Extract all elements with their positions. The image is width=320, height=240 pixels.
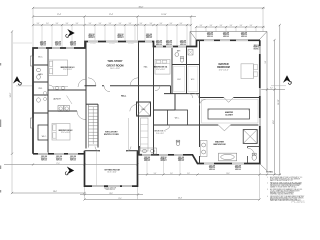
svg-text:TWO-STORY: TWO-STORY bbox=[105, 131, 118, 133]
svg-text:17'-0" x 21'-4": 17'-0" x 21'-4" bbox=[219, 70, 229, 72]
svg-text:BEDROOM #2: BEDROOM #2 bbox=[59, 130, 74, 132]
svg-text:BEDROOM: BEDROOM bbox=[217, 66, 229, 69]
svg-text:HALL: HALL bbox=[121, 95, 127, 98]
svg-text:HDR 8-0: HDR 8-0 bbox=[241, 36, 247, 38]
svg-text:BATHROOM: BATHROOM bbox=[213, 143, 225, 146]
svg-text:GREAT ROOM: GREAT ROOM bbox=[106, 64, 123, 67]
svg-text:LAUNDRY: LAUNDRY bbox=[53, 98, 62, 101]
svg-text:HDR 8-0: HDR 8-0 bbox=[178, 160, 184, 162]
svg-text:56'-10": 56'-10" bbox=[278, 99, 280, 105]
svg-text:BEDROOM #3: BEDROOM #3 bbox=[61, 67, 76, 69]
svg-text:TEMP HDR 8-0: TEMP HDR 8-0 bbox=[105, 189, 115, 191]
svg-text:11'-0" x 12'-0": 11'-0" x 12'-0" bbox=[156, 133, 164, 135]
svg-text:HDR 8-0: HDR 8-0 bbox=[235, 169, 241, 171]
svg-text:20'-0" x 19'-8": 20'-0" x 19'-8" bbox=[110, 68, 120, 70]
svg-text:HDR 8-0: HDR 8-0 bbox=[254, 48, 260, 50]
svg-text:BEDROOM #4: BEDROOM #4 bbox=[154, 66, 168, 69]
svg-text:HDR 8-0: HDR 8-0 bbox=[209, 169, 215, 171]
svg-text:54'-4": 54'-4" bbox=[178, 198, 182, 200]
svg-text:HDR 8-0: HDR 8-0 bbox=[166, 44, 172, 46]
svg-text:W.I.C.: W.I.C. bbox=[177, 79, 181, 81]
svg-text:W.I.C.: W.I.C. bbox=[38, 57, 43, 59]
svg-text:PDR.: PDR. bbox=[39, 88, 43, 90]
svg-text:HDR 8-0: HDR 8-0 bbox=[40, 45, 46, 47]
svg-text:TWO-STORY: TWO-STORY bbox=[107, 60, 122, 63]
svg-text:ENTRY FOYER: ENTRY FOYER bbox=[104, 134, 119, 136]
svg-text:W.I.C.: W.I.C. bbox=[42, 136, 47, 138]
svg-text:HDR 8-0: HDR 8-0 bbox=[146, 37, 152, 39]
svg-text:12'-0" x 13'-0": 12'-0" x 13'-0" bbox=[156, 69, 166, 71]
svg-text:HDR 8-0: HDR 8-0 bbox=[55, 45, 61, 47]
svg-text:16'-0" x 10'-0": 16'-0" x 10'-0" bbox=[107, 172, 117, 174]
svg-text:17-0 CLG: 17-0 CLG bbox=[90, 43, 95, 45]
svg-text:17'-0": 17'-0" bbox=[56, 163, 60, 165]
svg-text:SITTING ROOM: SITTING ROOM bbox=[104, 169, 120, 171]
svg-text:28'-0": 28'-0" bbox=[53, 191, 57, 193]
svg-text:HDR 8-0: HDR 8-0 bbox=[70, 159, 76, 161]
svg-text:HDR 8-0: HDR 8-0 bbox=[56, 159, 62, 161]
svg-text:HDR 8-0: HDR 8-0 bbox=[70, 45, 76, 47]
svg-text:20'-8": 20'-8" bbox=[226, 173, 230, 175]
svg-text:18'-8": 18'-8" bbox=[109, 193, 113, 195]
svg-text:9'-0": 9'-0" bbox=[265, 60, 267, 63]
svg-text:HDR 8-0: HDR 8-0 bbox=[144, 160, 150, 162]
svg-text:NOTES:: NOTES: bbox=[266, 171, 274, 173]
svg-text:HDR 8-0: HDR 8-0 bbox=[41, 159, 47, 161]
svg-text:PLANS: PLANS bbox=[291, 199, 305, 204]
svg-text:56'-0": 56'-0" bbox=[10, 92, 12, 97]
svg-text:17-0 CLG: 17-0 CLG bbox=[128, 43, 133, 45]
svg-text:42'-8": 42'-8" bbox=[273, 120, 275, 124]
svg-text:12'-0" x 13'-6": 12'-0" x 13'-6" bbox=[61, 132, 71, 134]
svg-text:HDR 8-0: HDR 8-0 bbox=[89, 37, 95, 39]
svg-text:HDR 8-0: HDR 8-0 bbox=[118, 37, 124, 39]
svg-text:BEDROOM #5: BEDROOM #5 bbox=[154, 131, 165, 133]
svg-text:12'-0" x 13'-6": 12'-0" x 13'-6" bbox=[63, 69, 73, 71]
svg-text:82'-0": 82'-0" bbox=[139, 6, 144, 8]
svg-text:16068 SLIDING DR: 16068 SLIDING DR bbox=[104, 187, 116, 189]
svg-text:CLOSET: CLOSET bbox=[225, 114, 234, 116]
svg-text:17'-4": 17'-4" bbox=[109, 14, 114, 16]
svg-text:ELEV.: ELEV. bbox=[141, 109, 146, 111]
svg-text:12'-4": 12'-4" bbox=[118, 198, 122, 200]
svg-text:HDR 8-0: HDR 8-0 bbox=[156, 44, 162, 46]
svg-text:W.I.C.: W.I.C. bbox=[175, 118, 180, 120]
svg-text:12'-10": 12'-10" bbox=[161, 14, 167, 16]
svg-text:MASTER: MASTER bbox=[215, 141, 224, 144]
svg-text:HDR 8-0: HDR 8-0 bbox=[161, 160, 167, 162]
svg-text:17-0 CLG: 17-0 CLG bbox=[109, 43, 114, 45]
svg-text:HDR 8-0: HDR 8-0 bbox=[223, 36, 229, 38]
svg-text:HDR 8-0: HDR 8-0 bbox=[180, 44, 186, 46]
svg-text:HDR 8-0: HDR 8-0 bbox=[207, 36, 213, 38]
svg-text:W.I.C.: W.I.C. bbox=[191, 79, 195, 81]
svg-text:17'-4": 17'-4" bbox=[57, 14, 62, 16]
